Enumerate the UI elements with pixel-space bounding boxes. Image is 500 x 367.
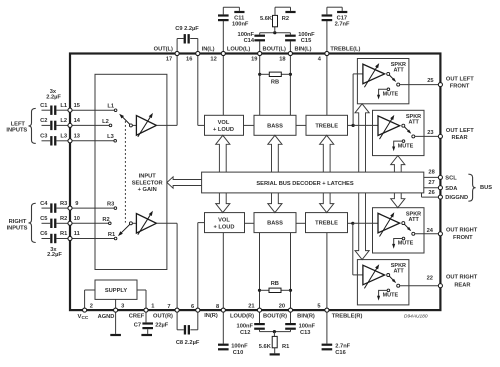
capacitor C17 2.7nF pin4 to ground (326, 21, 328, 54)
svg-text:AGND: AGND (98, 314, 115, 320)
wire amp R output to pin7 node (156, 222, 177, 224)
selector arm to R1 with arrow (121, 224, 130, 233)
svg-text:L3: L3 (60, 134, 67, 140)
svg-text:MUTE: MUTE (383, 92, 399, 98)
svg-text:L2: L2 (102, 119, 109, 125)
block VOL+LOUD (left) (205, 115, 244, 135)
wire BASS to TREBLE (L) (296, 124, 306, 126)
svg-text:SUPPLY: SUPPLY (105, 288, 127, 294)
wire VOL+LOUD to BASS (L) (244, 124, 255, 126)
svg-text:C9 2.2µF: C9 2.2µF (175, 26, 199, 32)
svg-text:SCL: SCL (445, 176, 457, 182)
svg-text:C3: C3 (40, 134, 47, 140)
block VOL+LOUD (right) (205, 213, 245, 233)
svg-text:LEFT: LEFT (11, 121, 26, 127)
svg-text:BOUT(R): BOUT(R) (263, 314, 287, 320)
svg-text:D94AU180: D94AU180 (404, 313, 428, 319)
svg-text:TREBLE(L): TREBLE(L) (330, 46, 360, 52)
selector contact R3 (114, 207, 117, 210)
svg-text:2.2µF: 2.2µF (46, 95, 61, 101)
svg-text:13: 13 (74, 134, 80, 140)
resistor RB (left) between pin19/pin18 wires (258, 73, 261, 76)
svg-text:C4: C4 (40, 201, 48, 207)
svg-text:27: 27 (428, 180, 434, 186)
svg-text:25: 25 (427, 78, 433, 84)
svg-text:C15: C15 (301, 38, 311, 44)
svg-text:+ GAIN: + GAIN (138, 187, 157, 193)
svg-text:RB: RB (271, 281, 279, 287)
speaker attenuator SPKR ATT 3 (out right front) (373, 208, 425, 253)
svg-text:C13: C13 (300, 330, 310, 336)
svg-text:5.6K: 5.6K (260, 16, 273, 22)
control arrow to SPKR ATT 1 (355, 104, 369, 172)
node junction L output (352, 124, 355, 127)
svg-text:C12: C12 (240, 330, 250, 336)
selector contact R1 (114, 237, 117, 240)
svg-text:C5: C5 (40, 216, 47, 222)
wire pin 9 to selector contact (70, 207, 115, 209)
svg-text:LOUD(L): LOUD(L) (227, 46, 250, 52)
wire pin12 to VOL+LOUD top (222, 54, 224, 116)
svg-text:2.7nF: 2.7nF (335, 22, 350, 28)
svg-text:C6: C6 (40, 231, 47, 237)
svg-text:MUTE: MUTE (398, 241, 414, 247)
dashed gang-coupling line (124, 121, 126, 223)
capacitor C5 2.2uF input coupling (42, 222, 51, 224)
control arrow to BASS L (268, 135, 282, 172)
resistor R2 5.6K to ground (260, 32, 291, 34)
speaker attenuator SPKR ATT 2 (out left rear) (373, 110, 425, 155)
svg-text:3: 3 (121, 303, 124, 309)
svg-text:100nF: 100nF (232, 22, 249, 28)
svg-text:L1: L1 (60, 103, 67, 109)
svg-text:R2: R2 (60, 216, 67, 222)
wire pin19 to BASS top with RB junction (259, 54, 261, 116)
selector contact L3 (114, 140, 117, 143)
pin circles overlay (175, 51, 179, 55)
svg-text:C2: C2 (40, 118, 47, 124)
svg-text:SERIAL BUS DECODER + LATCHES: SERIAL BUS DECODER + LATCHES (256, 181, 353, 187)
svg-text:22: 22 (427, 276, 433, 282)
speaker attenuator SPKR ATT 4 (out right rear) (357, 260, 409, 305)
svg-text:8: 8 (216, 304, 219, 310)
svg-text:L3: L3 (107, 134, 114, 140)
svg-text:C11: C11 (234, 16, 244, 22)
wire pin8 riser to VOL+LOUD bottom (222, 233, 224, 311)
control arrow to VOL+LOUD R (216, 193, 230, 213)
svg-text:INPUT: INPUT (139, 173, 157, 179)
svg-text:12: 12 (210, 56, 216, 62)
capacitor C4 2.2uF input coupling (42, 207, 51, 209)
capacitor C7 22uF on CREF (145, 310, 147, 322)
svg-text:11: 11 (74, 231, 80, 237)
svg-text:DIGGND: DIGGND (445, 195, 468, 201)
svg-text:MUTE: MUTE (398, 143, 414, 149)
svg-text:FRONT: FRONT (453, 235, 473, 241)
control arrow to VOL+LOUD L (216, 135, 230, 172)
svg-text:R3: R3 (107, 201, 114, 207)
wire VOL+LOUD to BASS (R) (245, 222, 255, 224)
resistor R1 5.6K to ground (273, 330, 276, 333)
selector pole R (switch wiper) (129, 222, 132, 225)
svg-text:20: 20 (279, 303, 285, 309)
svg-text:OUT LEFT: OUT LEFT (446, 128, 474, 134)
svg-text:OUT LEFT: OUT LEFT (446, 77, 474, 83)
svg-text:OUT(L): OUT(L) (154, 46, 173, 52)
svg-text:ATT: ATT (409, 119, 420, 125)
ground above C11 (234, 11, 244, 13)
svg-text:VCC: VCC (78, 314, 89, 320)
svg-text:+ LOUD: + LOUD (213, 127, 234, 133)
ground below AGND (115, 310, 117, 334)
capacitor C8 2.2uF between pins 7 and 6 (176, 310, 178, 330)
ground below C7 (141, 334, 152, 336)
capacitor C9 2.2uF between pins 17 and 16 (176, 39, 178, 54)
wire TREBLE(R) bottom to pin5 (326, 233, 328, 311)
capacitor C15 100nF above pin18 (289, 33, 291, 35)
op-amp input selector gain stage L (136, 116, 156, 136)
brace LEFT INPUTS (29, 108, 36, 143)
svg-text:L1: L1 (107, 103, 114, 109)
svg-text:C7: C7 (134, 322, 141, 328)
selector contact L1 (114, 109, 117, 112)
svg-text:TREBLE: TREBLE (315, 221, 338, 227)
svg-text:2: 2 (90, 303, 93, 309)
wire pin18 to BASS top (289, 54, 291, 116)
wire BASS to TREBLE (R) (296, 222, 306, 224)
svg-text:9: 9 (75, 201, 78, 207)
block BASS (left) (254, 115, 296, 135)
svg-text:17: 17 (166, 56, 172, 62)
capacitor C1 2.2uF input coupling (42, 109, 51, 111)
svg-text:OUT RIGHT: OUT RIGHT (446, 275, 478, 281)
block SERIAL BUS DECODER + LATCHES (202, 172, 424, 193)
svg-text:BIN(L): BIN(L) (294, 46, 311, 52)
wire amp L output to pin17 node (156, 124, 177, 126)
wire pin 11 to selector contact (70, 238, 116, 240)
block TREBLE (left) (306, 115, 348, 135)
block SUPPLY (95, 280, 137, 299)
svg-text:ATT: ATT (393, 68, 404, 74)
svg-text:VOL: VOL (218, 120, 230, 126)
control arrow to SPKR ATT 3 (391, 193, 405, 208)
svg-text:BOUT(L): BOUT(L) (263, 46, 286, 52)
svg-text:SELECTOR: SELECTOR (132, 180, 163, 186)
svg-text:2.7nF: 2.7nF (335, 343, 350, 349)
brace RIGHT INPUTS (29, 203, 36, 242)
svg-text:BASS: BASS (267, 123, 283, 129)
wire pin16 down into VOL+LOUD left (197, 54, 199, 126)
svg-text:RIGHT: RIGHT (9, 219, 27, 225)
wire pin 13 to selector contact (70, 140, 115, 142)
svg-text:23: 23 (427, 130, 433, 136)
capacitor C10 100nF below pin8 (222, 310, 224, 344)
svg-text:5: 5 (317, 303, 320, 309)
svg-text:1: 1 (151, 303, 154, 309)
node junction R output (351, 222, 354, 225)
svg-text:R2: R2 (102, 217, 109, 223)
svg-text:R1: R1 (60, 231, 67, 237)
svg-text:MUTE: MUTE (383, 293, 399, 299)
selector contact R2 (109, 222, 112, 225)
svg-text:C14: C14 (244, 38, 255, 44)
svg-text:BASS: BASS (267, 221, 283, 227)
selector pole L (switch wiper) (129, 124, 132, 127)
svg-text:VOL: VOL (218, 218, 230, 224)
control arrow to SPKR ATT 4 (355, 193, 369, 260)
svg-text:R3: R3 (60, 201, 67, 207)
svg-text:INPUTS: INPUTS (6, 128, 27, 134)
svg-text:100nF: 100nF (231, 343, 248, 349)
selector contact L2 (109, 124, 112, 127)
brace BUS (468, 174, 475, 201)
svg-text:TREBLE: TREBLE (315, 123, 338, 129)
svg-text:LOUD(R): LOUD(R) (230, 314, 254, 320)
svg-text:SDA: SDA (445, 186, 457, 192)
svg-text:REAR: REAR (452, 135, 468, 141)
svg-text:4: 4 (318, 56, 322, 62)
wire pin17 to selector amp output (176, 54, 178, 126)
capacitor C12 100nF below pin21 (259, 310, 261, 323)
svg-text:C17: C17 (337, 16, 347, 22)
svg-text:18: 18 (279, 56, 285, 62)
svg-text:21: 21 (248, 303, 254, 309)
control arrow to input selector (167, 177, 202, 188)
svg-text:INPUTS: INPUTS (7, 225, 28, 231)
svg-text:OUT RIGHT: OUT RIGHT (446, 228, 478, 234)
svg-text:ATT: ATT (409, 217, 420, 223)
wire pin 10 to selector contact (70, 222, 110, 224)
capacitor C16 2.7nF below pin5 (326, 310, 328, 344)
svg-text:ATT: ATT (393, 269, 404, 275)
svg-text:22µF: 22µF (155, 323, 169, 329)
svg-text:FRONT: FRONT (450, 84, 470, 90)
input selector inner box (95, 74, 167, 269)
svg-text:R2: R2 (282, 16, 289, 22)
svg-text:C1: C1 (40, 103, 47, 109)
op-amp input selector gain stage R (136, 214, 156, 234)
capacitor C13 100nF below pin20 (290, 310, 292, 323)
svg-text:C8 2.2µF: C8 2.2µF (176, 340, 200, 346)
block TREBLE (right) (306, 213, 348, 233)
selector arm to L1 with arrow (122, 116, 130, 124)
speaker attenuator SPKR ATT 1 (out left front) (357, 59, 409, 104)
wire pin4 to TREBLE top (326, 54, 328, 116)
ground above C17 (337, 11, 347, 13)
resistor RB (right) between pin21/pin20 wires (259, 233, 261, 311)
block BASS (right) (254, 213, 296, 233)
svg-text:15: 15 (74, 103, 80, 109)
svg-text:BIN(R): BIN(R) (297, 314, 315, 320)
capacitor C11 100nF pin12 to ground (222, 21, 224, 54)
amp input stub R (132, 222, 136, 224)
svg-text:R1: R1 (282, 344, 289, 350)
svg-text:C10: C10 (233, 350, 243, 356)
svg-text:28: 28 (428, 169, 434, 175)
svg-text:BUS: BUS (480, 185, 492, 191)
svg-text:IN(L): IN(L) (202, 46, 215, 52)
control arrow to TREBLE L (320, 135, 334, 172)
svg-text:14: 14 (74, 118, 81, 124)
wire pin6 riser into VOL+LOUD (right) (197, 223, 199, 311)
svg-text:5.6K: 5.6K (259, 344, 272, 350)
svg-text:C16: C16 (335, 350, 345, 356)
svg-text:R1: R1 (108, 232, 115, 238)
svg-text:10: 10 (74, 216, 80, 222)
ground below R1 (270, 353, 280, 355)
svg-text:OUT(R): OUT(R) (153, 314, 173, 320)
control arrow to TREBLE R (320, 193, 334, 213)
svg-text:CREF: CREF (129, 314, 145, 320)
svg-text:100nF: 100nF (237, 324, 254, 330)
svg-text:RB: RB (271, 80, 279, 86)
ground above R2 (285, 11, 295, 13)
svg-text:TREBLE(R): TREBLE(R) (332, 314, 363, 320)
svg-text:7: 7 (167, 304, 170, 310)
wire pin7 riser (176, 223, 178, 310)
wire TREBLE(R) output to SPKR ATT nodes (348, 222, 353, 224)
svg-text:16: 16 (186, 56, 192, 62)
capacitor C6 2.2uF input coupling (42, 238, 51, 240)
capacitor C14 100nF above pin19 (259, 33, 261, 35)
control arrow to BASS R (268, 193, 282, 213)
svg-text:100nF: 100nF (299, 324, 316, 330)
IC outline (main device boundary) (70, 54, 440, 311)
wire TREBLE(L) output to SPKR ATT nodes (348, 124, 354, 126)
svg-text:2.2µF: 2.2µF (47, 252, 62, 258)
wire pin 15 to selector contact (70, 109, 116, 111)
control arrow to SPKR ATT 2 (391, 156, 405, 173)
svg-text:IN(R): IN(R) (204, 313, 218, 319)
svg-text:+ LOUD: + LOUD (213, 225, 234, 231)
amp input stub L (132, 124, 136, 126)
svg-text:19: 19 (251, 56, 257, 62)
capacitor C3 2.2uF input coupling (42, 140, 51, 142)
capacitor C2 2.2uF input coupling (42, 124, 51, 126)
svg-text:24: 24 (427, 228, 434, 234)
svg-text:REAR: REAR (454, 282, 470, 288)
svg-text:L2: L2 (60, 118, 67, 124)
wire pin 14 to selector contact (70, 124, 111, 126)
svg-text:6: 6 (191, 304, 194, 310)
svg-text:26: 26 (428, 190, 434, 196)
